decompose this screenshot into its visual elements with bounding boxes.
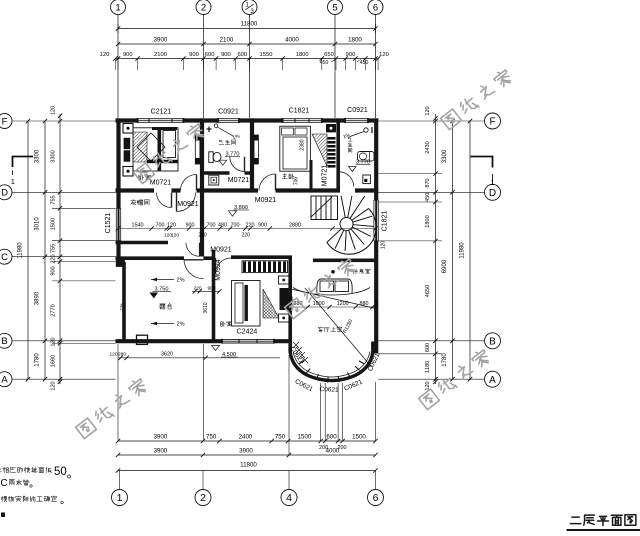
- top dim row detailed chain: [115, 58, 378, 60]
- svg-text:6: 6: [373, 2, 378, 13]
- toilet room washbasin: [209, 175, 219, 185]
- svg-text:120: 120: [109, 352, 117, 358]
- room label bathroom2 vertical: [348, 138, 350, 140]
- svg-text:C1521: C1521: [105, 213, 112, 234]
- bottom dim row3 total 11800: [118, 470, 376, 472]
- svg-text:2%: 2%: [176, 278, 184, 284]
- svg-text:755: 755: [51, 195, 57, 204]
- bottom dim row1: [118, 440, 376, 442]
- svg-text:C0621: C0621: [319, 386, 339, 394]
- master nightstand: [326, 124, 336, 132]
- bedroom2 wardrobe shelf: [243, 262, 246, 273]
- svg-text:1500: 1500: [352, 433, 366, 440]
- bedroom2 bedside blocks: [279, 276, 290, 284]
- bathroom2 left wall: [336, 118, 340, 190]
- svg-text:3.750: 3.750: [155, 286, 169, 292]
- svg-text:3300: 3300: [442, 149, 448, 163]
- watermark: [418, 348, 491, 410]
- svg-text:A: A: [489, 375, 496, 386]
- svg-text:2770: 2770: [51, 304, 57, 316]
- room label bedroom2: [221, 322, 223, 327]
- bedroom2 left wall: [212, 250, 216, 341]
- svg-text:M0924: M0924: [215, 259, 222, 281]
- svg-text:B: B: [489, 336, 496, 347]
- svg-text:650: 650: [324, 52, 334, 58]
- interior wall axis 2 vertical: [200, 118, 204, 256]
- svg-text:120: 120: [100, 52, 110, 58]
- svg-text:2100: 2100: [220, 37, 234, 44]
- svg-text:M0721: M0721: [228, 177, 250, 184]
- right dim col detailed chain: [435, 114, 437, 384]
- right extension stubs: [378, 173, 442, 175]
- svg-text:3900: 3900: [154, 37, 168, 44]
- bathroom1 toilet: [209, 152, 213, 163]
- room label living void: [320, 326, 322, 328]
- svg-text:700: 700: [231, 222, 240, 228]
- note dot: [1, 513, 5, 518]
- svg-text:120: 120: [381, 241, 387, 250]
- bottom axis bubbles 1 2 4 6: [119, 471, 121, 490]
- svg-text:220: 220: [51, 254, 57, 263]
- svg-text:4000: 4000: [285, 37, 299, 44]
- svg-text:120: 120: [51, 381, 57, 390]
- svg-text:3: 3: [250, 8, 254, 15]
- svg-text:4000: 4000: [326, 447, 340, 454]
- left axis bubbles F D C B A: [0, 114, 12, 129]
- svg-text:2: 2: [200, 492, 206, 504]
- level 3.770 bathroom1: [219, 160, 227, 165]
- svg-text:1540: 1540: [132, 222, 144, 228]
- lounge sofa: [317, 279, 352, 293]
- svg-text:600: 600: [237, 52, 247, 58]
- svg-text:1000: 1000: [313, 301, 325, 307]
- svg-text:C2121: C2121: [151, 109, 172, 116]
- svg-text:3900: 3900: [154, 433, 168, 440]
- level 3.750 terrace: [150, 293, 159, 299]
- svg-text:1: 1: [11, 177, 15, 186]
- svg-text:4650: 4650: [425, 285, 431, 297]
- svg-text:11800: 11800: [240, 461, 257, 468]
- svg-text:2: 2: [201, 2, 206, 13]
- top axis bubbles 1 2 1/3 5 6: [111, 0, 126, 15]
- terrace gate box: [137, 335, 148, 344]
- svg-text:700: 700: [207, 222, 216, 228]
- svg-text:755: 755: [51, 244, 57, 253]
- left dim col detailed chain: [59, 114, 61, 384]
- room label master: [283, 173, 286, 176]
- svg-text:750: 750: [206, 433, 217, 440]
- left wall window C1521: [118, 208, 120, 240]
- level 3.770 bathroom2: [349, 167, 357, 172]
- door M0721 bedroom1: [181, 175, 197, 191]
- right dim col spans: [452, 121, 454, 379]
- svg-text:1800: 1800: [296, 52, 309, 58]
- closet bottom wall: [116, 241, 169, 244]
- svg-text:M0721: M0721: [150, 180, 172, 187]
- living room void edge curve: [293, 288, 370, 296]
- svg-text:11800: 11800: [241, 20, 258, 27]
- svg-text:M0721: M0721: [322, 165, 329, 187]
- svg-text:1: 1: [117, 492, 123, 504]
- svg-text:600: 600: [326, 433, 337, 440]
- interior wall axis D horizontal: [116, 188, 155, 192]
- svg-text:3900: 3900: [239, 447, 253, 454]
- svg-text:220: 220: [242, 233, 251, 239]
- svg-text:50: 50: [54, 466, 67, 478]
- interior wall axis 1/3 vertical: [250, 118, 254, 192]
- svg-text:1200: 1200: [337, 301, 349, 307]
- svg-text:3890: 3890: [35, 291, 41, 305]
- svg-text:1780: 1780: [442, 353, 448, 367]
- svg-text:900: 900: [346, 52, 356, 58]
- svg-text:M0921: M0921: [210, 247, 232, 254]
- bedroom1 wall cabinet: [195, 135, 200, 164]
- watermark: [133, 122, 206, 184]
- svg-text:3900: 3900: [154, 447, 168, 454]
- top dim row spans 3900/2100/4000/1800: [118, 43, 376, 45]
- svg-text:2430: 2430: [425, 141, 431, 153]
- svg-text:C: C: [0, 478, 7, 489]
- svg-text:M0921: M0921: [177, 201, 199, 208]
- svg-text:F: F: [2, 116, 8, 127]
- svg-text:450: 450: [425, 193, 431, 202]
- lounge top wall below stair: [313, 258, 376, 262]
- svg-text:900: 900: [123, 52, 133, 58]
- svg-text:2%: 2%: [176, 322, 184, 328]
- svg-text:120: 120: [374, 301, 379, 309]
- svg-text:450: 450: [320, 60, 329, 66]
- door M0921 bedroom2: [216, 258, 232, 274]
- door M0721 bathroom2: [339, 172, 354, 187]
- svg-text:D: D: [1, 188, 8, 199]
- svg-text:2880: 2880: [289, 222, 301, 228]
- interior dim row: [118, 228, 376, 230]
- right axis lines: [378, 120, 484, 122]
- level 4.500: [212, 346, 220, 351]
- bedroom2 top wall: [231, 255, 292, 259]
- svg-text:5: 5: [332, 2, 337, 13]
- svg-text:4: 4: [286, 492, 292, 504]
- svg-text:120: 120: [51, 337, 57, 346]
- svg-text:11980: 11980: [18, 242, 24, 259]
- lounge column dot: [331, 270, 335, 274]
- room label lounge: [353, 269, 354, 271]
- svg-text:C: C: [1, 252, 8, 263]
- note line3: [1, 496, 3, 502]
- room label terrace: [160, 303, 166, 305]
- svg-text:11980: 11980: [460, 242, 466, 259]
- exterior wall bottom (axis B): [116, 339, 223, 343]
- svg-text:2380: 2380: [300, 139, 306, 150]
- svg-text:1800: 1800: [348, 37, 362, 44]
- svg-text:6: 6: [373, 492, 379, 504]
- level 3.800: [229, 211, 237, 216]
- svg-text:1800: 1800: [425, 215, 431, 227]
- svg-text:220: 220: [198, 233, 207, 239]
- void radius lines: [291, 289, 376, 309]
- right dim col total 11980: [469, 121, 471, 379]
- svg-text:480: 480: [218, 222, 227, 228]
- master closet partition: [310, 160, 313, 191]
- lounge dim row: [289, 306, 377, 308]
- bedroom1 nightstands and headboard blocks: [123, 124, 133, 134]
- planter crosshatch near bay: [293, 342, 299, 348]
- svg-text:600: 600: [205, 52, 215, 58]
- svg-text:120: 120: [167, 222, 176, 228]
- room label closet: [132, 199, 135, 201]
- svg-text:C1821: C1821: [289, 108, 310, 115]
- master wardrobe: [312, 134, 327, 166]
- bedroom1 double bed: [133, 128, 178, 171]
- svg-text:6900: 6900: [442, 259, 448, 273]
- svg-text:220: 220: [193, 285, 201, 291]
- svg-text:M0921: M0921: [255, 197, 277, 204]
- svg-text:700: 700: [294, 177, 300, 186]
- svg-text:900: 900: [221, 52, 231, 58]
- svg-text:3610: 3610: [203, 302, 209, 313]
- svg-text:900: 900: [189, 52, 199, 58]
- svg-text:1: 1: [115, 2, 120, 13]
- watermark: [75, 377, 148, 439]
- svg-text:870: 870: [425, 178, 431, 187]
- terrace top wall (axis C): [116, 256, 185, 260]
- svg-text:450: 450: [360, 60, 369, 66]
- room label bedroom1: [139, 175, 141, 180]
- bathroom1 bottom wall: [202, 171, 230, 174]
- master wall cabinet: [254, 135, 258, 164]
- svg-text:3300: 3300: [35, 149, 41, 163]
- svg-text:F: F: [489, 117, 495, 128]
- right axis bubbles F D B A: [485, 113, 501, 129]
- bathroom2 shower head: [364, 128, 368, 132]
- svg-text:3620: 3620: [161, 352, 173, 358]
- title second floor plan: [572, 516, 579, 518]
- door closet lower: [186, 243, 200, 256]
- svg-text:3010: 3010: [35, 217, 41, 231]
- svg-text:1660: 1660: [51, 355, 57, 367]
- spiral stair: [311, 196, 338, 220]
- bottom wall window C2424: [222, 338, 274, 340]
- svg-text:900: 900: [207, 285, 215, 291]
- svg-text:1780: 1780: [35, 353, 41, 367]
- bottom dim row2 3900/3900/4000: [118, 454, 376, 456]
- exterior wall right (axis 6): [374, 118, 378, 200]
- top axis leader lines: [117, 13, 119, 118]
- left section mark 1: [13, 157, 34, 168]
- bathroom2 drain box: [363, 175, 371, 184]
- left dim col spans: [44, 121, 46, 379]
- terrace slope arrow lower 2%: [151, 323, 174, 325]
- door M0921 hall: [177, 193, 196, 212]
- master double bed: [280, 126, 311, 171]
- svg-text:750: 750: [275, 433, 286, 440]
- door M0721 bathroom1: [230, 157, 245, 172]
- bottom extension lines: [117, 344, 119, 441]
- svg-text:880: 880: [360, 301, 369, 307]
- svg-text:900: 900: [258, 222, 267, 228]
- bathroom1 floor drain and leader: [214, 124, 218, 128]
- watermark: [440, 68, 513, 130]
- svg-text:2400: 2400: [239, 433, 253, 440]
- bathroom2 bathtub: [358, 152, 375, 162]
- svg-text:280: 280: [118, 352, 126, 358]
- svg-text:120: 120: [379, 52, 389, 58]
- svg-text:C0921: C0921: [347, 107, 368, 114]
- right wall window C1821: [375, 200, 377, 241]
- svg-text:C0921: C0921: [218, 109, 239, 116]
- right section mark 1: [471, 157, 493, 168]
- svg-text:900: 900: [51, 266, 57, 275]
- left axis lines: [11, 120, 116, 122]
- top wall windows C2121 C0921 C1821 C0921: [138, 118, 184, 120]
- terrace parapet left and corner post: [122, 262, 126, 342]
- svg-text:2100: 2100: [154, 52, 167, 58]
- svg-text:600: 600: [425, 343, 431, 352]
- svg-text:1500: 1500: [298, 433, 312, 440]
- stair width dims: [311, 196, 338, 220]
- curved bay wall with windows C0621: [290, 342, 373, 381]
- svg-text:220: 220: [246, 222, 255, 228]
- svg-text:120: 120: [51, 106, 57, 115]
- exterior wall left (axis 1): [116, 118, 120, 208]
- terrace bottom dim 3620: [119, 357, 280, 359]
- svg-text:700: 700: [156, 222, 165, 228]
- bedroom2 right wall: [288, 256, 292, 353]
- svg-text:3300: 3300: [51, 150, 57, 162]
- svg-text:120: 120: [425, 106, 431, 115]
- svg-text:1500: 1500: [51, 218, 57, 230]
- svg-text:C2424: C2424: [237, 329, 258, 336]
- terrace slope arrow upper 2%: [151, 279, 174, 281]
- svg-text:900: 900: [186, 222, 195, 228]
- svg-text:B: B: [1, 336, 7, 347]
- svg-text:A: A: [1, 375, 8, 386]
- svg-text:D: D: [489, 188, 496, 199]
- exterior wall top (axis F): [116, 118, 138, 122]
- left extension stubs: [52, 207, 116, 209]
- door M0924 terrace: [184, 259, 204, 279]
- svg-text:1550: 1550: [260, 52, 273, 58]
- bedroom2 bed: [232, 281, 261, 327]
- watermark: [284, 257, 357, 319]
- top dim row total 11800: [118, 28, 376, 30]
- left dim col total 11980: [27, 121, 29, 379]
- svg-text:1180: 1180: [425, 361, 431, 373]
- svg-text:C1821: C1821: [382, 211, 389, 232]
- svg-text:120: 120: [171, 233, 179, 239]
- room label bathroom1: [220, 140, 223, 143]
- door M0721 closet swing: [157, 193, 172, 208]
- svg-text:1%: 1%: [119, 303, 125, 311]
- terrace door mini dims: [192, 290, 220, 292]
- door M0921 master bedroom: [259, 174, 276, 191]
